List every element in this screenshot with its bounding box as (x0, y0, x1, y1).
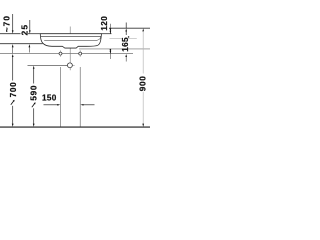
dim 700 floor arrow (12, 124, 14, 127)
basin inner rim line (41, 35, 101, 37)
dim arrows H4-H5 (110, 49, 112, 52)
dim 165 stub above H1 (125, 23, 127, 29)
wire H5 fixing-hole centerline (0, 53, 133, 55)
dim ~70 leader line (12, 14, 14, 31)
extension line from right hole to floor (79, 67, 81, 127)
dim 120 arrows (110, 28, 112, 31)
dim 900 line upper (142, 31, 144, 74)
dim 900 line lower (142, 92, 144, 126)
svg-text:700: 700 (9, 82, 18, 98)
dim 700 line lower (12, 106, 14, 125)
dim 700 line (12, 57, 14, 81)
dim 150 second arrow (80, 104, 83, 106)
svg-text:150: 150 (42, 94, 57, 103)
dim 700 break tick (11, 100, 14, 105)
dim 25 arrow at H2 (29, 30, 31, 33)
dim 165 line upper (125, 31, 127, 35)
node gray line tick (128, 36, 129, 38)
wire H3 counter line left (0, 43, 43, 45)
dim 165 top arrow (125, 28, 127, 31)
drain level connector line (28, 64, 68, 66)
dim ~70 arrow at H2 (12, 30, 14, 33)
dim 900 floor arrow (142, 124, 144, 127)
dim 590 break tick (32, 103, 35, 108)
centerline (69, 27, 71, 71)
drain circle (65, 63, 75, 68)
basin inner bowl line (44, 37, 101, 41)
svg-text:120: 120 (100, 16, 109, 31)
fixing hole left circle (57, 50, 64, 57)
dim 900 top arrow (142, 28, 144, 31)
svg-text:900: 900 (139, 75, 148, 91)
dim arrow below H3 x30 + tail (29, 44, 31, 47)
dim 120 segment H1-H2 (109, 28, 111, 33)
wire H2 rim-top extension line right (102, 33, 112, 35)
dim 700 arrow under H5 (12, 54, 14, 57)
svg-text:~70: ~70 (3, 15, 12, 33)
dim arrow below H3 x13 + tail (12, 44, 14, 47)
basin outline (40, 34, 101, 48)
dim 120 stub above H1 (109, 24, 111, 28)
dim 590 arrow under connector (33, 66, 35, 69)
fixing hole right circle (77, 50, 84, 57)
dim 590 floor arrow (33, 124, 35, 127)
dim 25 leader line (29, 20, 31, 31)
svg-text:165: 165 (121, 37, 130, 52)
extension line from left hole to floor (60, 67, 62, 127)
dim 165 bottom arrow + tail (125, 54, 127, 57)
svg-text:590: 590 (30, 85, 39, 101)
wire H4 right mid line (79, 48, 150, 50)
dim segment H4-H5 x110 (109, 49, 111, 54)
dim 590 line lower (33, 108, 35, 125)
dim 590 line (33, 69, 35, 84)
dim 150 line + arrow (44, 104, 60, 106)
svg-text:25: 25 (20, 23, 29, 35)
wire H1 right top level line (109, 27, 150, 29)
wire H2 rim-top extension line left (0, 33, 21, 35)
tail below H5 x110 (109, 54, 111, 59)
floor line (0, 126, 150, 128)
wire gray overflow line (110, 37, 123, 39)
